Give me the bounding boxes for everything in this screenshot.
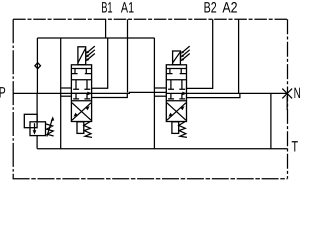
wire N line (187, 93, 240, 97)
relief valve RV main box (30, 122, 46, 136)
svg-text:N: N (294, 85, 301, 102)
wire riser valve1 to rail (92, 38, 108, 88)
svg-text:A1: A1 (121, 0, 134, 16)
svg-text:B2: B2 (204, 0, 217, 16)
wire B2 port drop (187, 19, 213, 88)
wire relief valve outlet (36, 136, 38, 149)
relief valve adjust arrow (47, 119, 52, 136)
valve V2 body (166, 65, 186, 122)
top supply rail (37, 37, 154, 39)
valve V2 cap box (173, 51, 181, 65)
wire check valve branch (36, 38, 38, 93)
svg-text:A2: A2 (222, 0, 237, 16)
wire carryover valve1 to valve2 (92, 93, 128, 97)
wire A2 port drop (238, 19, 240, 93)
valve V2 interior bars (166, 68, 186, 70)
valve V2 bottom cell X arrows (167, 103, 186, 120)
spool valve V1 (71, 46, 94, 137)
tank rail (37, 148, 287, 150)
enclosure dashed border (13, 18, 287, 20)
valve V1 through lines with arrow (71, 92, 91, 94)
valve V1 body (71, 65, 91, 122)
valve V2 top cell blocked ports (166, 69, 186, 74)
relief valve RV pilot box (24, 114, 37, 127)
wire valve1 left bypass stub (61, 95, 72, 97)
svg-text:P: P (0, 84, 6, 101)
valve V2 mid cell blocked ports upper (168, 80, 185, 90)
valve V2 mid cell blocked ports lower (168, 94, 185, 99)
plugged port X at N (282, 89, 292, 99)
valve V1 mid cell blocked ports lower (73, 94, 90, 99)
svg-text:T: T (292, 138, 299, 155)
valve V1 interior bars (71, 68, 91, 70)
wire N drop to tank (270, 93, 272, 148)
wire valve1 left feeder stub (61, 87, 72, 89)
wire valve1 bypass drop (60, 38, 62, 149)
valve V1 cap box (78, 47, 86, 65)
wire relief valve inlet (36, 93, 38, 121)
wire B1 port drop (105, 19, 107, 38)
wire valve2 bypass drop (153, 38, 155, 149)
valve V1 top cell blocked ports (71, 69, 91, 74)
valve V1 stem spring (84, 122, 92, 138)
valve V1 stem (77, 122, 84, 134)
valve V1 mid cell blocked ports upper (73, 80, 90, 90)
wire valve2 left bypass stub (154, 95, 166, 97)
wire A1 port drop (127, 19, 129, 92)
valve V1 bottom cell X arrows (72, 103, 91, 120)
wire valve2 left feeder stub (154, 87, 166, 89)
relief valve flow arrow (34, 123, 36, 131)
spool valve V2 (166, 46, 189, 137)
valve V2 stem spring (179, 122, 187, 138)
svg-text:B1: B1 (101, 0, 112, 16)
valve V1 cap spring arrows (87, 46, 95, 60)
check valve CV1 (35, 63, 41, 69)
valve V2 cap spring arrows (182, 46, 190, 60)
relief valve spring (46, 124, 54, 136)
valve V2 through lines with arrow (166, 92, 186, 94)
valve V2 stem (172, 122, 179, 134)
wire P supply line (13, 92, 91, 94)
